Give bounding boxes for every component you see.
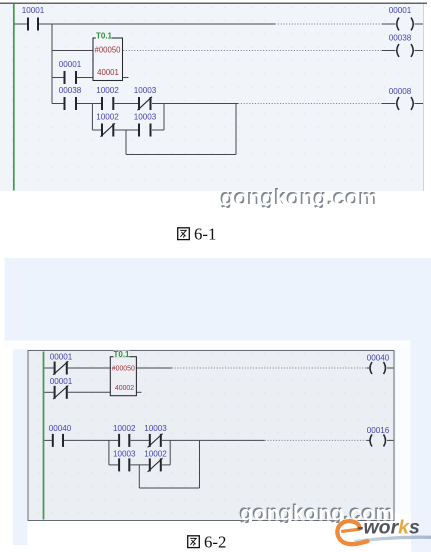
svg-text:10003: 10003 — [144, 424, 167, 433]
svg-text:10002: 10002 — [144, 450, 167, 459]
svg-text:00038: 00038 — [389, 34, 412, 43]
svg-text:10003: 10003 — [113, 450, 136, 459]
svg-text:10003: 10003 — [134, 86, 157, 95]
svg-text:00040: 00040 — [367, 354, 390, 363]
svg-text:10001: 10001 — [22, 6, 45, 15]
svg-text:40002: 40002 — [115, 385, 134, 392]
svg-text:#00050: #00050 — [112, 365, 135, 372]
svg-text:40001: 40001 — [97, 68, 119, 77]
svg-text:00001: 00001 — [50, 353, 73, 362]
svg-text:00001: 00001 — [389, 6, 412, 15]
svg-text:T0.1: T0.1 — [113, 350, 130, 359]
svg-text:10002: 10002 — [96, 86, 119, 95]
svg-text:00008: 00008 — [389, 87, 412, 96]
svg-text:00016: 00016 — [367, 426, 390, 435]
svg-text:10003: 10003 — [134, 113, 157, 122]
svg-text:6-1: 6-1 — [194, 225, 216, 244]
svg-text:6-2: 6-2 — [204, 533, 226, 552]
svg-text:#00050: #00050 — [94, 46, 121, 55]
svg-text:00038: 00038 — [59, 86, 82, 95]
svg-text:10002: 10002 — [96, 113, 119, 122]
svg-text:-works: -works — [357, 517, 420, 539]
svg-text:00001: 00001 — [59, 60, 82, 69]
svg-text:gongkong.com: gongkong.com — [221, 186, 379, 211]
svg-text:T0.1: T0.1 — [96, 32, 113, 41]
svg-text:00001: 00001 — [50, 377, 73, 386]
svg-text:00040: 00040 — [49, 424, 72, 433]
svg-text:10002: 10002 — [113, 424, 136, 433]
